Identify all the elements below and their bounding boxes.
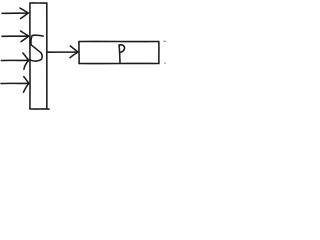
box S	[30, 3, 49, 109]
input arrow 3	[1, 53, 29, 69]
stray tick top-right of box P	[164, 40, 167, 42]
input arrow 1	[2, 8, 28, 19]
input arrow 4	[1, 77, 29, 93]
box P	[79, 41, 159, 63]
input arrow 2	[2, 31, 29, 42]
arrow S to P	[47, 46, 78, 58]
label P	[119, 45, 125, 63]
label S	[30, 35, 43, 61]
stray tick bottom-right of box P	[165, 62, 167, 64]
